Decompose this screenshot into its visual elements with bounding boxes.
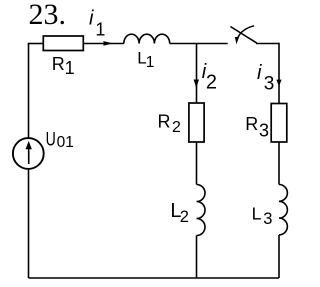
svg-text:2: 2	[180, 208, 189, 226]
wire top from left corner to R1	[28, 43, 43, 45]
svg-text:i: i	[89, 7, 94, 29]
current arrow i3	[276, 80, 281, 87]
resistor R3	[271, 104, 287, 143]
wire switch to right corner	[256, 43, 279, 45]
svg-text:i: i	[257, 62, 262, 84]
svg-text:2: 2	[206, 72, 217, 94]
wire L1 to switch	[170, 43, 228, 45]
source U01 circle	[13, 138, 44, 169]
inductor L1	[124, 34, 170, 43]
svg-text:R: R	[245, 114, 258, 134]
wire R2 to L2	[196, 142, 198, 185]
wire R3 to L3	[278, 142, 280, 185]
current arrow i2	[194, 80, 199, 89]
wire right vertical top	[278, 43, 280, 104]
svg-text:L: L	[252, 204, 262, 224]
svg-text:3: 3	[264, 74, 275, 95]
wire L3 to bottom	[278, 235, 280, 278]
svg-text:R: R	[158, 112, 171, 132]
wire left vertical top	[28, 44, 30, 139]
wire L2 to bottom	[196, 236, 198, 279]
resistor R2	[189, 103, 204, 142]
switch blade	[230, 27, 256, 44]
wire bottom horizontal	[29, 277, 280, 279]
svg-text:3: 3	[263, 210, 272, 228]
current arrow i1	[103, 41, 112, 46]
wire R1 to L1	[83, 43, 124, 45]
svg-text:U: U	[46, 130, 56, 151]
svg-text:1: 1	[65, 58, 75, 78]
svg-text:23.: 23.	[29, 0, 67, 31]
svg-text:2: 2	[172, 119, 181, 136]
svg-text:01: 01	[57, 134, 74, 151]
resistor R1	[43, 36, 83, 51]
source U01 internal arrow	[28, 147, 30, 164]
svg-text:1: 1	[95, 20, 105, 40]
svg-text:1: 1	[146, 54, 155, 71]
svg-text:R: R	[52, 54, 65, 74]
inductor L3	[279, 185, 287, 235]
svg-text:3: 3	[259, 120, 269, 140]
switch opening arc arrow	[238, 26, 254, 37]
inductor L2	[197, 185, 206, 236]
wire left vertical bottom	[28, 169, 30, 278]
node junction middle branch	[196, 44, 198, 104]
